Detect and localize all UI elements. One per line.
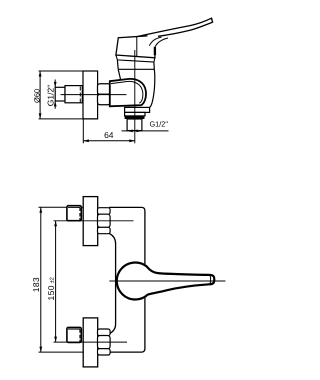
ring under cap: [116, 55, 155, 62]
elbow inner line: [111, 81, 143, 103]
svg-text:G1/2": G1/2": [149, 120, 168, 129]
lever tip bevel: [212, 18, 213, 22]
nut on thread: [65, 86, 82, 103]
thread pipe G1/2 (wall side): [55, 87, 65, 101]
dim 150+-2: line + arrows: [54, 221, 57, 342]
body right edge: [150, 69, 155, 107]
svg-text:G1/2": G1/2": [45, 85, 55, 106]
horizontal centerline of wall connection: [61, 94, 127, 96]
body top edge: [118, 68, 154, 70]
handle cap edges: [116, 36, 155, 58]
dim Ø60: dimension line with arrows: [39, 71, 42, 119]
ext line 183 bottom (merges with body bottom edge): [39, 351, 111, 353]
thread square top connection: [67, 206, 81, 221]
outlet collar lower ring: [125, 112, 145, 116]
dim 150+-2: label: [46, 277, 56, 300]
dark band under collar: [125, 116, 145, 119]
lever (plan view): bulb + taper: [117, 262, 215, 299]
body left edge: [118, 69, 121, 81]
svg-text:±2: ±2: [49, 277, 55, 283]
thread dashes on nut: [79, 87, 81, 103]
lever underside curves over cap: [149, 37, 161, 46]
lever handle (side view blade): [138, 18, 213, 36]
dim Ø60: extension lines: [39, 71, 98, 119]
neck below cap: [117, 60, 154, 69]
svg-text:Ø60: Ø60: [32, 89, 41, 103]
elbow ball of union: [110, 79, 146, 106]
lever root dark detail: [154, 47, 156, 55]
wall flange top connection: [83, 197, 98, 246]
outlet collar upper step: [125, 107, 150, 112]
thread square bottom connection: [67, 327, 81, 342]
cap seam line: [136, 36, 138, 56]
dim 64: dimension line with arrows: [83, 139, 135, 142]
handle cap (fill): [116, 36, 155, 58]
axis line top connection: [54, 220, 134, 222]
tip inner arc: [209, 275, 212, 284]
outlet pipe G1/2: [127, 119, 142, 131]
wall flange (escutcheon edge-on): [83, 71, 98, 119]
wire: outlet vertical centerline: [134, 50, 136, 143]
svg-text:183: 183: [31, 277, 41, 292]
lever axis centerline: [109, 280, 225, 282]
hex nut of union: [98, 84, 111, 105]
wire: dim 64 left extension line: [82, 119, 84, 143]
svg-text:150: 150: [46, 285, 56, 300]
axis line bottom connection: [54, 341, 128, 343]
dim G1/2 (wall thread): arrows: [54, 80, 57, 109]
body of mixer (plan): [109, 207, 145, 352]
hex nut bottom connection: [98, 329, 111, 355]
wall flange bottom connection: [83, 318, 98, 367]
dim 183: line + arrows: [39, 207, 42, 352]
ext line 183 top: [39, 206, 85, 208]
svg-text:64: 64: [104, 130, 114, 140]
hex nut top connection: [98, 208, 111, 234]
dim G1/2 outlet: line and arrows: [122, 130, 169, 133]
